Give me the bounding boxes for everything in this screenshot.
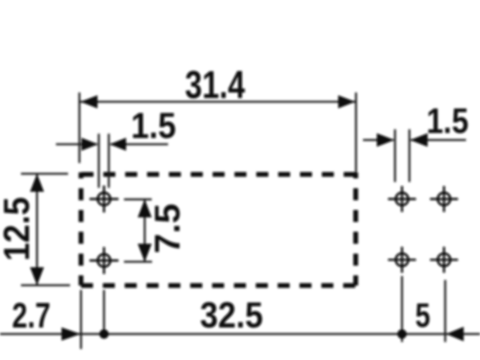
svg-text:12.5: 12.5	[0, 197, 37, 261]
svg-text:5: 5	[415, 297, 430, 335]
svg-text:31.4: 31.4	[185, 64, 245, 107]
svg-text:1.5: 1.5	[131, 105, 176, 146]
svg-text:32.5: 32.5	[200, 295, 263, 336]
svg-text:2.7: 2.7	[12, 295, 51, 335]
svg-text:7.5: 7.5	[149, 204, 188, 254]
svg-text:1.5: 1.5	[427, 102, 469, 141]
